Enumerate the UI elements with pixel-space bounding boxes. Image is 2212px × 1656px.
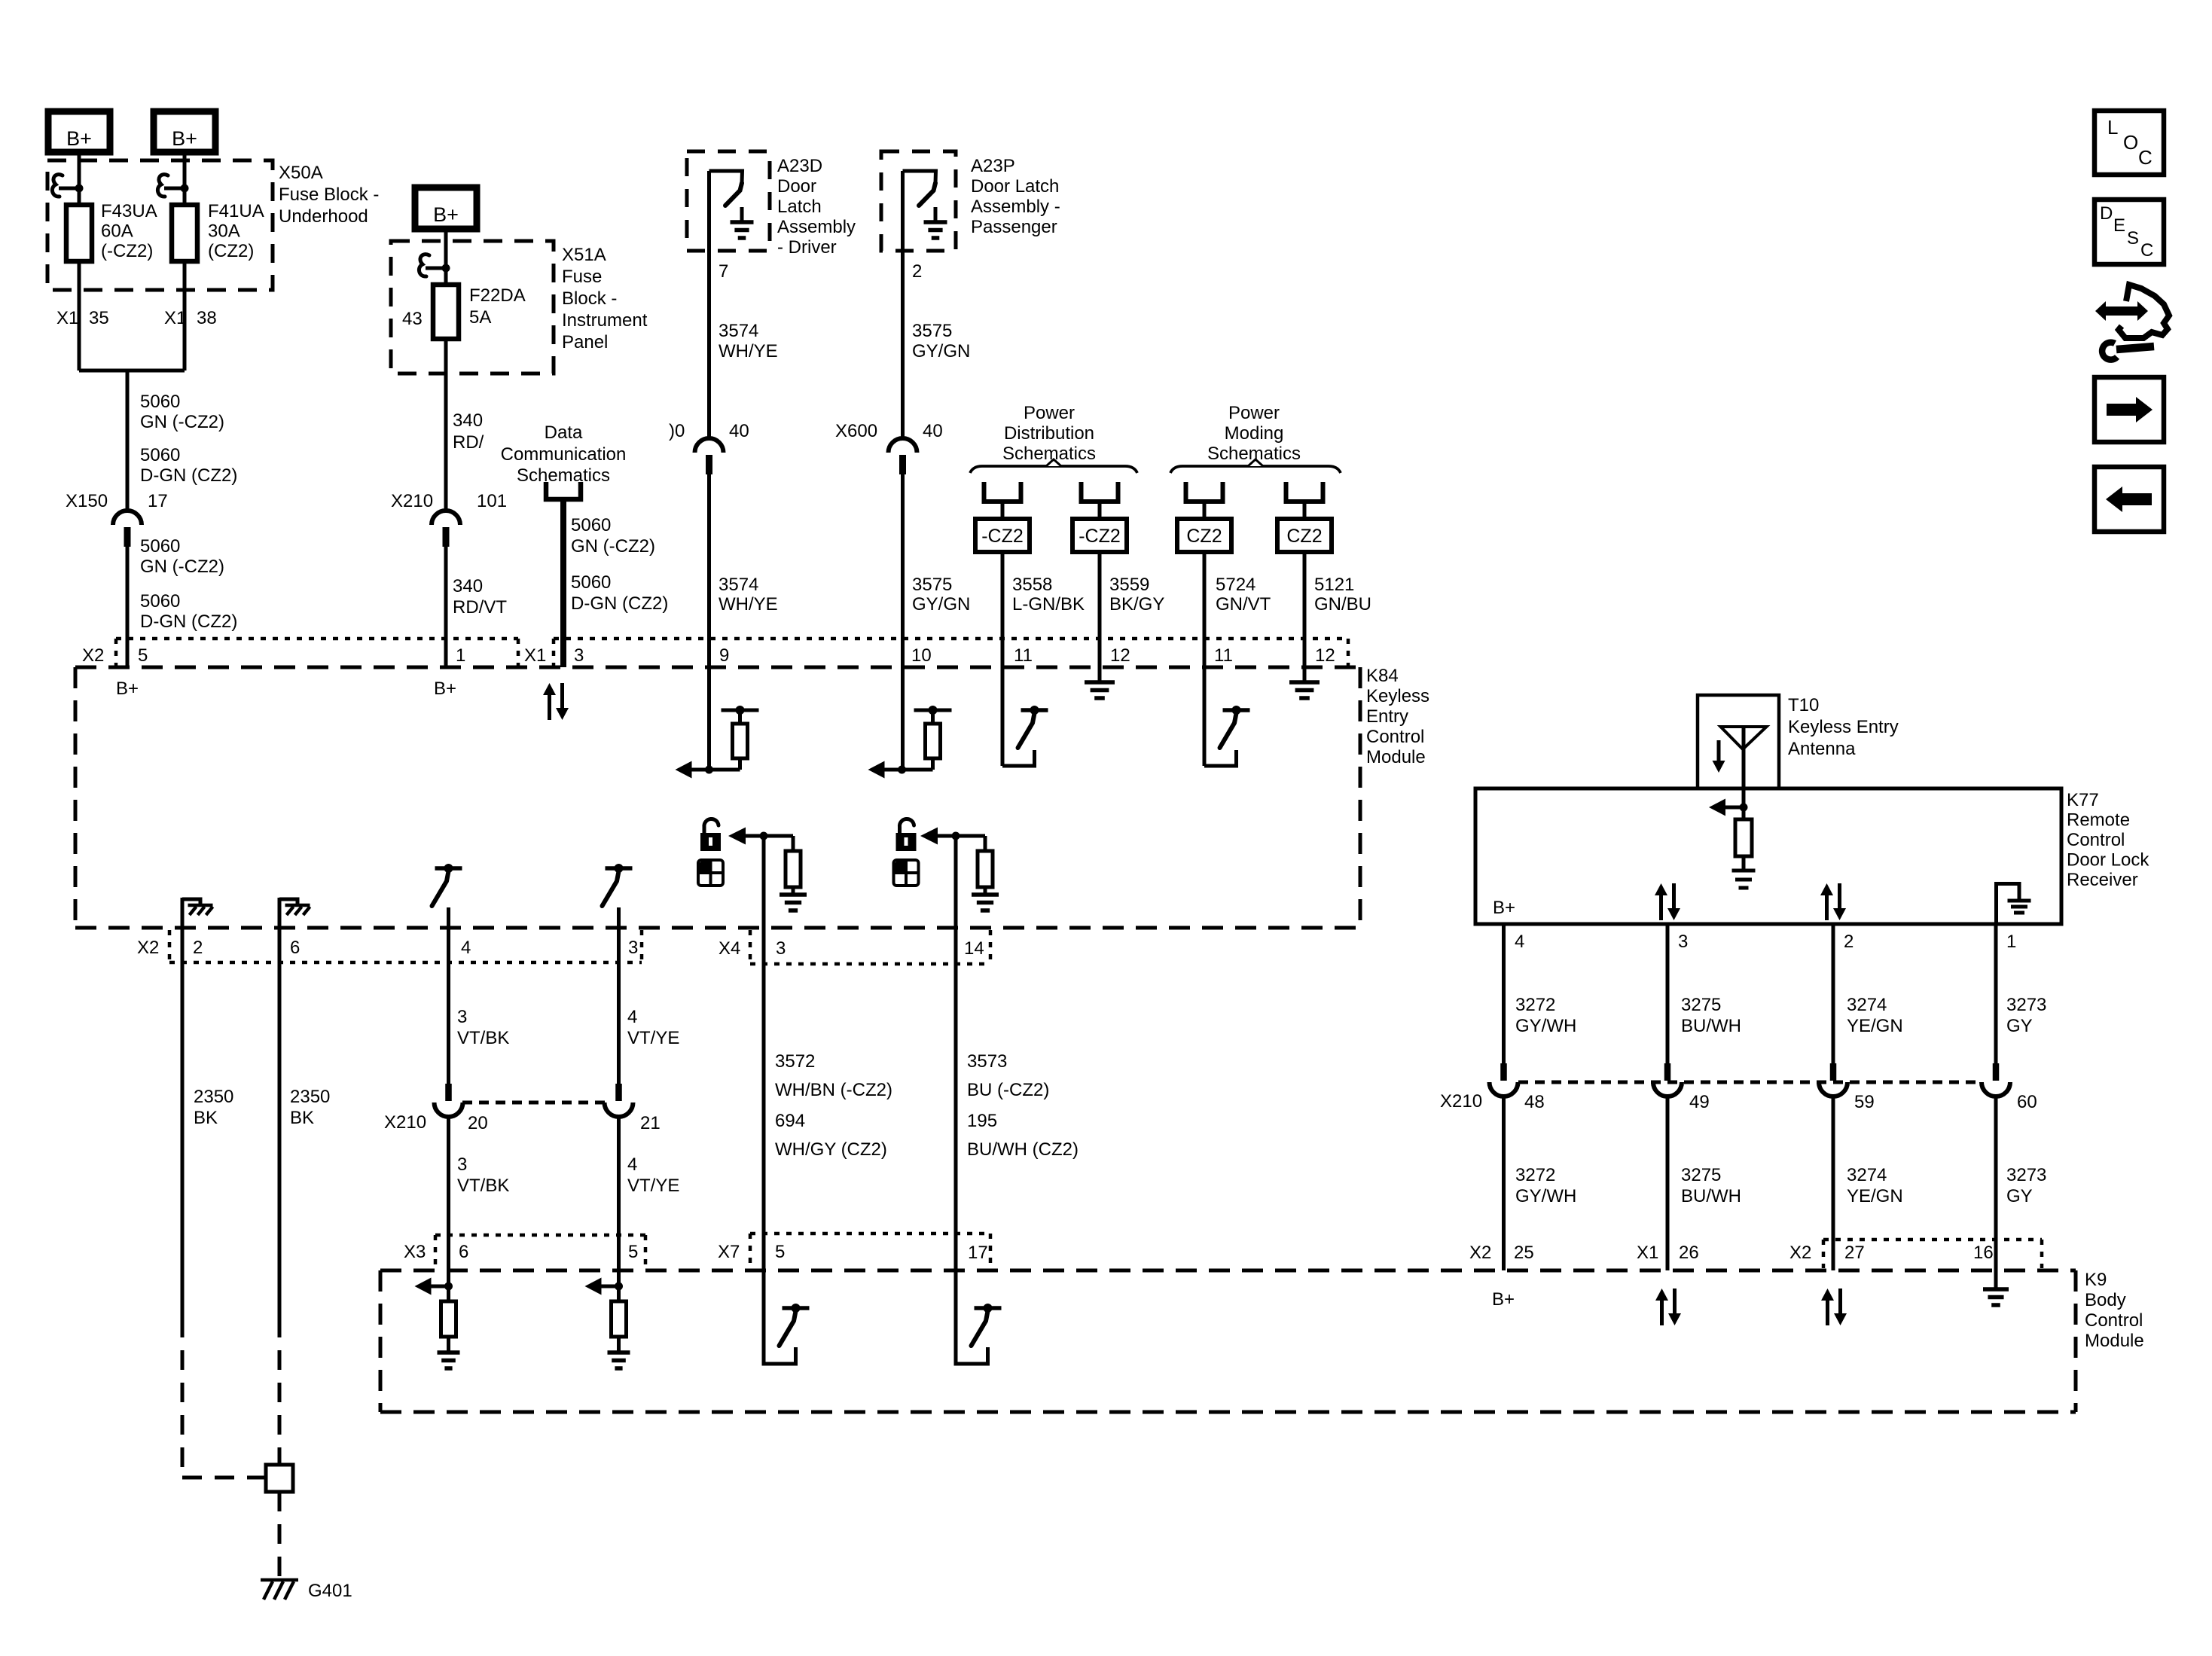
svg-text:X2: X2: [82, 645, 104, 666]
svg-text:GN/VT: GN/VT: [1216, 594, 1271, 615]
svg-text:3572: 3572: [775, 1051, 815, 1072]
svg-text:WH/BN (-CZ2): WH/BN (-CZ2): [775, 1080, 892, 1100]
svg-text:340: 340: [453, 410, 483, 431]
svg-text:2: 2: [912, 261, 922, 282]
svg-text:Schematics: Schematics: [1002, 444, 1096, 464]
svg-text:5724: 5724: [1216, 575, 1256, 595]
svg-text:11: 11: [1014, 645, 1033, 666]
svg-text:4: 4: [461, 938, 471, 958]
svg-text:X210: X210: [384, 1112, 426, 1133]
svg-text:Keyless Entry: Keyless Entry: [1788, 717, 1899, 737]
svg-text:Block -: Block -: [562, 288, 617, 309]
svg-text:T10: T10: [1788, 695, 1819, 715]
svg-text:GY/GN: GY/GN: [912, 594, 970, 615]
svg-text:A23P: A23P: [971, 156, 1015, 176]
svg-text:GY: GY: [2006, 1016, 2033, 1036]
svg-text:X2: X2: [1789, 1243, 1811, 1263]
svg-text:11: 11: [1214, 645, 1233, 666]
svg-text:6: 6: [290, 938, 300, 958]
svg-text:4: 4: [627, 1007, 637, 1027]
svg-text:Control: Control: [2085, 1310, 2143, 1331]
svg-text:B+: B+: [172, 127, 197, 150]
svg-text:20: 20: [468, 1113, 488, 1133]
svg-text:3574: 3574: [719, 321, 758, 341]
svg-text:B+: B+: [1493, 898, 1515, 918]
svg-text:Module: Module: [1366, 747, 1426, 767]
svg-text:3274: 3274: [1847, 1165, 1887, 1185]
svg-text:3: 3: [628, 938, 638, 958]
svg-text:Door Lock: Door Lock: [2067, 850, 2149, 871]
svg-text:40: 40: [923, 421, 943, 441]
svg-text:21: 21: [640, 1113, 661, 1133]
svg-text:X210: X210: [391, 491, 433, 511]
svg-text:X3: X3: [404, 1242, 426, 1262]
svg-text:-CZ2: -CZ2: [1079, 526, 1121, 547]
svg-text:Latch: Latch: [777, 197, 822, 217]
svg-text:L-GN/BK: L-GN/BK: [1012, 594, 1085, 615]
svg-text:3559: 3559: [1109, 575, 1149, 595]
svg-text:X7: X7: [718, 1242, 740, 1262]
svg-text:Moding: Moding: [1225, 423, 1284, 444]
svg-text:10: 10: [911, 645, 932, 666]
svg-text:X4: X4: [719, 938, 740, 959]
svg-text:60: 60: [2017, 1092, 2037, 1112]
svg-text:BU (-CZ2): BU (-CZ2): [967, 1080, 1049, 1100]
svg-text:2350: 2350: [290, 1087, 330, 1107]
svg-text:26: 26: [1679, 1243, 1699, 1263]
svg-text:-CZ2: -CZ2: [981, 526, 1024, 547]
svg-text:5060: 5060: [140, 536, 180, 557]
svg-text:X1: X1: [1637, 1243, 1658, 1263]
svg-text:60A: 60A: [101, 221, 133, 242]
svg-text:F41UA: F41UA: [208, 201, 264, 221]
svg-text:Assembly: Assembly: [777, 217, 856, 237]
svg-text:X210: X210: [1440, 1091, 1482, 1112]
svg-text:1: 1: [2006, 932, 2016, 952]
svg-text:43: 43: [402, 309, 423, 329]
svg-text:YE/GN: YE/GN: [1847, 1016, 1903, 1036]
svg-text:VT/YE: VT/YE: [627, 1176, 679, 1196]
svg-text:WH/YE: WH/YE: [719, 341, 778, 361]
svg-text:Door Latch: Door Latch: [971, 176, 1059, 197]
svg-text:CZ2: CZ2: [1286, 526, 1322, 547]
svg-text:38: 38: [197, 308, 217, 328]
svg-text:K84: K84: [1366, 666, 1399, 686]
svg-text:Schematics: Schematics: [517, 465, 610, 486]
svg-text:BK/GY: BK/GY: [1109, 594, 1164, 615]
svg-text:3: 3: [1678, 932, 1688, 952]
svg-text:A23D: A23D: [777, 156, 822, 176]
svg-text:D-GN (CZ2): D-GN (CZ2): [140, 465, 237, 486]
svg-text:B+: B+: [116, 679, 139, 699]
svg-text:4: 4: [627, 1154, 637, 1175]
svg-text:101: 101: [477, 491, 507, 511]
svg-text:D-GN (CZ2): D-GN (CZ2): [140, 611, 237, 632]
svg-text:E: E: [2113, 215, 2125, 236]
svg-text:BU/WH: BU/WH: [1681, 1186, 1741, 1206]
svg-text:GY/WH: GY/WH: [1515, 1186, 1576, 1206]
svg-text:5A: 5A: [469, 307, 491, 328]
svg-text:3272: 3272: [1515, 995, 1555, 1015]
svg-text:F43UA: F43UA: [101, 201, 157, 221]
svg-text:X1: X1: [524, 645, 546, 666]
svg-text:3: 3: [457, 1007, 467, 1027]
svg-text:D: D: [2100, 203, 2113, 224]
svg-text:Power: Power: [1024, 403, 1075, 423]
svg-text:L: L: [2107, 116, 2118, 139]
svg-text:K9: K9: [2085, 1270, 2107, 1290]
svg-text:GY: GY: [2006, 1186, 2033, 1206]
svg-text:3575: 3575: [912, 575, 952, 595]
svg-text:Distribution: Distribution: [1004, 423, 1094, 444]
svg-text:VT/YE: VT/YE: [627, 1028, 679, 1048]
svg-text:Data: Data: [545, 422, 583, 443]
svg-text:5060: 5060: [140, 445, 180, 465]
svg-text:27: 27: [1844, 1243, 1865, 1263]
svg-text:B+: B+: [66, 127, 92, 150]
svg-text:3575: 3575: [912, 321, 952, 341]
svg-text:X51A: X51A: [562, 245, 606, 265]
svg-text:BK: BK: [194, 1108, 218, 1128]
svg-text:Receiver: Receiver: [2067, 870, 2138, 890]
svg-text:17: 17: [968, 1243, 988, 1263]
svg-text:Keyless: Keyless: [1366, 686, 1429, 706]
svg-text:Control: Control: [2067, 830, 2125, 850]
svg-text:48: 48: [1524, 1092, 1545, 1112]
svg-text:Panel: Panel: [562, 332, 608, 352]
svg-text:Entry: Entry: [1366, 706, 1408, 727]
svg-text:3275: 3275: [1681, 995, 1721, 1015]
svg-text:(-CZ2): (-CZ2): [101, 241, 153, 261]
svg-text:RD/: RD/: [453, 432, 484, 453]
svg-text:YE/GN: YE/GN: [1847, 1186, 1903, 1206]
svg-text:B+: B+: [433, 203, 459, 226]
svg-text:K77: K77: [2067, 790, 2099, 810]
svg-text:)0: )0: [669, 421, 685, 441]
svg-text:17: 17: [148, 491, 168, 511]
svg-text:Assembly -: Assembly -: [971, 197, 1060, 217]
svg-text:2: 2: [1844, 932, 1854, 952]
svg-text:5060: 5060: [140, 591, 180, 611]
svg-text:3275: 3275: [1681, 1165, 1721, 1185]
svg-text:BU/WH: BU/WH: [1681, 1016, 1741, 1036]
svg-text:GN (-CZ2): GN (-CZ2): [140, 412, 224, 432]
svg-text:5: 5: [775, 1242, 785, 1262]
svg-text:GY/GN: GY/GN: [912, 341, 970, 361]
svg-text:1: 1: [456, 645, 465, 666]
svg-text:12: 12: [1110, 645, 1130, 666]
svg-text:3: 3: [776, 938, 786, 959]
svg-text:X1: X1: [56, 308, 78, 328]
svg-text:14: 14: [964, 938, 984, 959]
svg-text:Power: Power: [1228, 403, 1280, 423]
svg-text:Body: Body: [2085, 1290, 2126, 1310]
svg-text:5060: 5060: [140, 392, 180, 412]
svg-text:3273: 3273: [2006, 1165, 2046, 1185]
svg-text:3: 3: [574, 645, 584, 666]
svg-text:B+: B+: [1492, 1289, 1515, 1310]
svg-text:6: 6: [459, 1242, 468, 1262]
svg-text:C: C: [2140, 240, 2153, 261]
svg-text:GN (-CZ2): GN (-CZ2): [571, 536, 655, 557]
svg-text:7: 7: [719, 261, 728, 282]
svg-text:5121: 5121: [1314, 575, 1354, 595]
svg-text:BK: BK: [290, 1108, 314, 1128]
svg-text:59: 59: [1854, 1092, 1875, 1112]
svg-text:49: 49: [1689, 1092, 1710, 1112]
svg-text:- Driver: - Driver: [777, 237, 837, 258]
svg-text:C: C: [2138, 146, 2153, 169]
svg-text:3272: 3272: [1515, 1165, 1555, 1185]
svg-text:Instrument: Instrument: [562, 310, 648, 331]
svg-text:RD/VT: RD/VT: [453, 597, 507, 618]
svg-text:694: 694: [775, 1111, 805, 1131]
svg-text:X150: X150: [66, 491, 108, 511]
svg-text:Module: Module: [2085, 1331, 2144, 1351]
svg-text:Communication: Communication: [501, 444, 627, 465]
svg-text:3573: 3573: [967, 1051, 1007, 1072]
svg-text:Control: Control: [1366, 727, 1424, 747]
svg-text:195: 195: [967, 1111, 997, 1131]
svg-text:3558: 3558: [1012, 575, 1052, 595]
svg-text:3273: 3273: [2006, 995, 2046, 1015]
svg-text:5: 5: [628, 1242, 638, 1262]
svg-text:O: O: [2123, 131, 2138, 154]
svg-text:Underhood: Underhood: [279, 206, 368, 227]
svg-text:VT/BK: VT/BK: [457, 1176, 509, 1196]
svg-text:X2: X2: [1469, 1243, 1491, 1263]
svg-text:B+: B+: [434, 679, 456, 699]
svg-text:3274: 3274: [1847, 995, 1887, 1015]
svg-text:4: 4: [1515, 932, 1524, 952]
svg-text:G401: G401: [308, 1581, 352, 1601]
svg-text:Antenna: Antenna: [1788, 739, 1856, 759]
svg-text:X2: X2: [137, 938, 159, 958]
svg-text:WH/GY (CZ2): WH/GY (CZ2): [775, 1139, 887, 1160]
svg-text:2: 2: [193, 938, 203, 958]
svg-text:CZ2: CZ2: [1186, 526, 1222, 547]
svg-text:5060: 5060: [571, 572, 611, 593]
svg-text:25: 25: [1514, 1243, 1534, 1263]
svg-text:GN (-CZ2): GN (-CZ2): [140, 557, 224, 577]
svg-text:Door: Door: [777, 176, 816, 197]
svg-text:35: 35: [89, 308, 109, 328]
svg-text:16: 16: [1973, 1243, 1994, 1263]
svg-text:3: 3: [457, 1154, 467, 1175]
svg-text:3574: 3574: [719, 575, 758, 595]
svg-text:12: 12: [1315, 645, 1335, 666]
svg-text:5: 5: [138, 645, 148, 666]
svg-text:VT/BK: VT/BK: [457, 1028, 509, 1048]
svg-text:Passenger: Passenger: [971, 217, 1057, 237]
svg-text:WH/YE: WH/YE: [719, 594, 778, 615]
svg-text:40: 40: [729, 421, 749, 441]
svg-text:(CZ2): (CZ2): [208, 241, 254, 261]
svg-text:5060: 5060: [571, 515, 611, 535]
svg-text:340: 340: [453, 576, 483, 596]
svg-text:Fuse Block -: Fuse Block -: [279, 185, 379, 205]
svg-text:9: 9: [719, 645, 729, 666]
svg-text:GY/WH: GY/WH: [1515, 1016, 1576, 1036]
svg-text:BU/WH (CZ2): BU/WH (CZ2): [967, 1139, 1079, 1160]
svg-text:30A: 30A: [208, 221, 240, 242]
svg-text:S: S: [2127, 228, 2139, 249]
svg-text:2350: 2350: [194, 1087, 233, 1107]
svg-text:GN/BU: GN/BU: [1314, 594, 1371, 615]
svg-text:Fuse: Fuse: [562, 267, 602, 287]
svg-text:X600: X600: [835, 421, 877, 441]
svg-text:Remote: Remote: [2067, 810, 2130, 831]
svg-text:F22DA: F22DA: [469, 285, 526, 306]
svg-text:X50A: X50A: [279, 163, 323, 183]
svg-text:D-GN (CZ2): D-GN (CZ2): [571, 593, 668, 614]
svg-text:X1: X1: [164, 308, 186, 328]
